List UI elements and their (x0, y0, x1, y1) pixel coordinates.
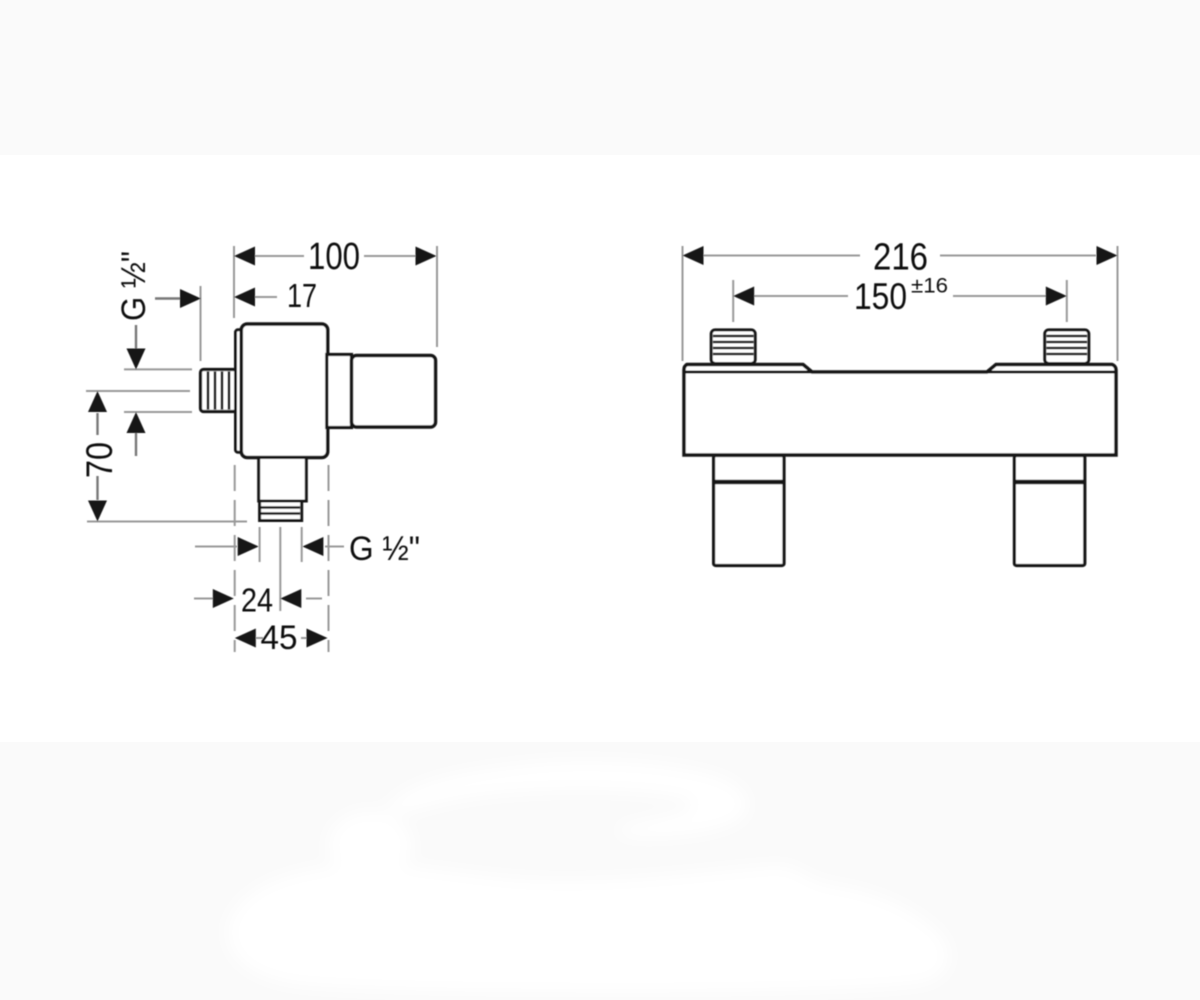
svg-text:100: 100 (308, 236, 360, 278)
svg-text:G ½": G ½" (115, 251, 153, 321)
svg-text:70: 70 (79, 442, 120, 478)
svg-text:24: 24 (241, 582, 273, 619)
svg-text:17: 17 (287, 277, 317, 314)
svg-text:45: 45 (261, 619, 298, 657)
svg-text:150: 150 (854, 276, 907, 317)
svg-text:±16: ±16 (911, 275, 948, 298)
svg-text:G ½": G ½" (349, 530, 420, 568)
svg-text:216: 216 (873, 237, 928, 279)
